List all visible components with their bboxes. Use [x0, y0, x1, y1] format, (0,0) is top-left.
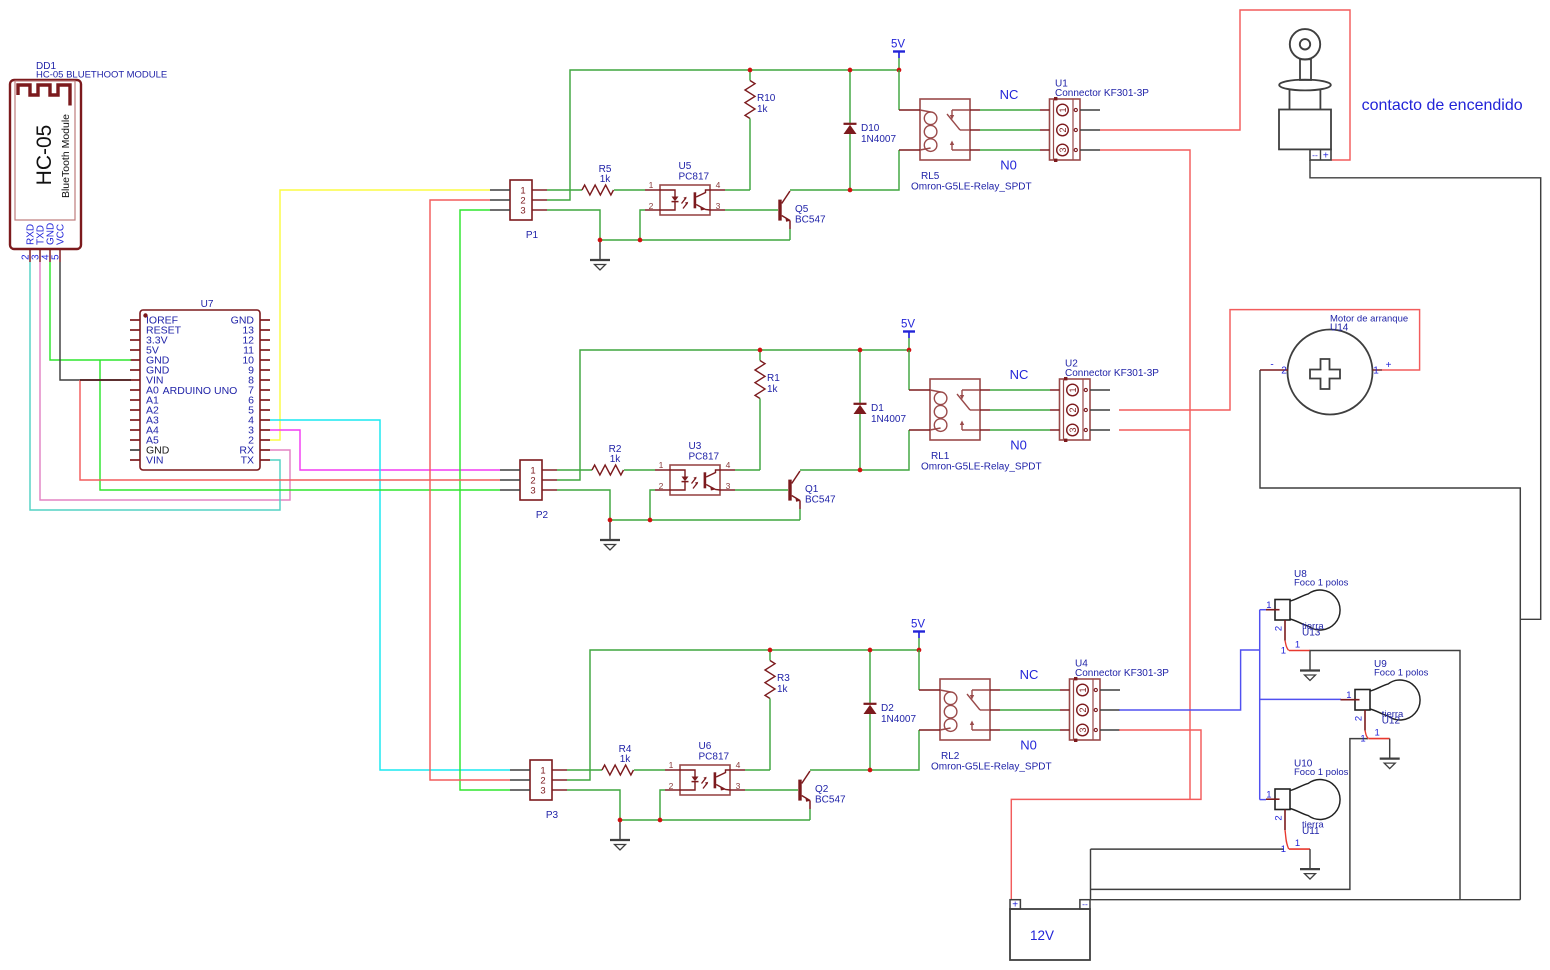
wire Q2 collector rail	[810, 730, 919, 770]
wire RL2 NC to U4.1	[1000, 689, 1060, 691]
svg-text:3: 3	[1058, 147, 1068, 152]
wire R3 to U6.4	[769, 699, 771, 771]
svg-text:--: --	[1082, 899, 1088, 909]
svg-text:PC817: PC817	[689, 452, 720, 463]
svg-text:1: 1	[1346, 690, 1351, 701]
wire U3.3 to Q1 base	[735, 489, 788, 491]
U6 LED	[680, 770, 695, 777]
svg-text:1k: 1k	[620, 754, 632, 765]
connector U1 body	[1050, 99, 1081, 160]
U6 phototransistor	[714, 772, 717, 788]
DD1 pin stubs	[29, 249, 31, 262]
svg-text:Foco 1 polos: Foco 1 polos	[1374, 668, 1429, 679]
svg-text:Connector KF301-3P: Connector KF301-3P	[1055, 88, 1149, 99]
svg-text:1k: 1k	[777, 684, 789, 695]
svg-text:RL5: RL5	[921, 171, 940, 182]
svg-text:HC-05: HC-05	[33, 125, 56, 186]
svg-text:3: 3	[736, 781, 741, 791]
wire U5.4 to R10	[725, 189, 750, 191]
wire P1.1 to R5	[547, 189, 582, 191]
svg-text:3: 3	[726, 481, 731, 491]
U13 pin wire	[1289, 650, 1310, 652]
svg-text:12V: 12V	[1030, 928, 1054, 943]
wire P2.2 to 5V rail	[557, 350, 909, 480]
wire green P1 pin3 to P3 pin3	[460, 210, 510, 790]
RL1 pin stubs	[909, 389, 930, 391]
svg-text:U12: U12	[1382, 716, 1401, 727]
svg-text:Omron-G5LE-Relay_SPDT: Omron-G5LE-Relay_SPDT	[911, 182, 1032, 193]
wire P2.1 to R2	[557, 469, 592, 471]
diode D10	[844, 123, 857, 125]
wire rail to R3	[769, 650, 771, 661]
bluetooth module DD1 HC-05 body	[10, 80, 81, 249]
tierra U13 ground	[1309, 651, 1311, 670]
wire gray minus rail to U11 ground	[1091, 848, 1284, 850]
svg-text:D2: D2	[881, 703, 894, 714]
wire R2 to U3.1	[624, 469, 655, 471]
ignition key terminal tab	[1310, 149, 1331, 160]
wire P3.3 to ground	[567, 790, 620, 820]
U4 left pin stubs	[1060, 689, 1070, 691]
svg-text:1: 1	[1068, 387, 1078, 392]
svg-text:U3: U3	[689, 441, 702, 452]
svg-text:Q5: Q5	[795, 204, 809, 215]
wire U6.3 to Q2 base	[745, 789, 798, 791]
svg-text:2: 2	[649, 201, 654, 211]
wire U9 pin2 to U12	[1365, 731, 1368, 739]
lamp U8 glass	[1290, 590, 1340, 630]
wire P2.3 to ground	[557, 490, 610, 520]
wire R5 to U5.1	[614, 189, 645, 191]
svg-text:+: +	[1323, 151, 1329, 162]
svg-text:3: 3	[520, 206, 525, 217]
wire rail to R1	[759, 350, 761, 361]
svg-text:5V: 5V	[891, 39, 905, 51]
svg-text:VIN: VIN	[146, 455, 164, 467]
battery 12V body	[1010, 909, 1090, 960]
svg-text:1: 1	[1281, 646, 1286, 657]
junction rail-R10	[748, 68, 753, 73]
U6 light arrows	[702, 778, 707, 784]
U5 LED	[660, 190, 675, 197]
RL5 coil	[920, 110, 931, 112]
wire yellow U7 pin2 to P1 pin1	[270, 190, 490, 440]
connector P2	[520, 460, 542, 500]
U7 left pin stubs	[130, 319, 140, 321]
relay RL2 body	[940, 679, 990, 740]
svg-text:1N4007: 1N4007	[871, 414, 906, 425]
svg-text:HC-05 BLUETHOOT MODULE: HC-05 BLUETHOOT MODULE	[36, 70, 167, 81]
svg-text:+: +	[1386, 360, 1392, 371]
lamp U10 base	[1275, 789, 1290, 810]
motor cross	[1310, 359, 1340, 389]
wire U3.2 to bottom rail	[650, 490, 655, 520]
junction ground rail	[598, 238, 603, 243]
svg-text:4: 4	[726, 460, 731, 470]
svg-text:BC547: BC547	[815, 795, 846, 806]
svg-text:VCC: VCC	[56, 224, 67, 245]
P2 left pin stubs	[500, 469, 520, 471]
svg-text:1: 1	[1375, 728, 1380, 739]
battery terminals	[1010, 900, 1020, 909]
wire bottom rail	[610, 519, 800, 521]
ignition key stem	[1300, 59, 1311, 80]
svg-text:N0: N0	[1010, 438, 1027, 453]
wire gray bottom rail battery minus	[1090, 899, 1520, 901]
ground 1	[599, 240, 601, 259]
resistor R4	[602, 765, 634, 775]
wire U10 pin2 to U11	[1285, 830, 1289, 849]
RL5 contacts	[952, 109, 970, 111]
diode D1	[854, 403, 867, 405]
wire RL5 COM to U1.2	[980, 129, 1040, 131]
lamp U10 pin1 stub	[1266, 798, 1280, 800]
wire U5.3 to Q5 base	[725, 209, 778, 211]
wire rail to D1	[859, 350, 861, 403]
wire D1 to collector rail	[859, 414, 861, 470]
diode D2	[864, 703, 877, 705]
U11 pin wire	[1289, 848, 1310, 850]
U1 circled pin 3	[1057, 144, 1069, 156]
svg-text:1k: 1k	[757, 104, 769, 115]
svg-text:Omron-G5LE-Relay_SPDT: Omron-G5LE-Relay_SPDT	[921, 462, 1042, 473]
lamp U9 glass	[1370, 680, 1420, 720]
wire P3.1 to R4	[567, 769, 602, 771]
optocoupler U5 body	[660, 185, 710, 215]
wire rail to R10	[749, 70, 751, 81]
svg-text:1: 1	[1058, 107, 1068, 112]
resistor R10	[745, 81, 755, 119]
svg-text:3: 3	[1068, 427, 1078, 432]
wire red P1 pin2 to P3 pin2	[430, 200, 510, 780]
wire R10 to U5.4	[749, 119, 751, 191]
tierra U11 ground	[1309, 849, 1311, 868]
wire RL5 NO to U1.3	[980, 149, 1040, 151]
wire gray motor - to chassis	[1260, 370, 1520, 900]
U5 phototransistor	[694, 192, 697, 208]
svg-text:1: 1	[1373, 366, 1379, 377]
wire RL2 NO to U4.3	[1000, 729, 1060, 731]
wire blue U4.2 to lamps	[1119, 650, 1260, 710]
U1 circled pin 2	[1057, 124, 1069, 136]
junction rail-5V	[917, 648, 922, 653]
svg-text:BC547: BC547	[795, 215, 826, 226]
svg-text:R10: R10	[757, 93, 776, 104]
wire RL2 COM to U4.2	[1000, 709, 1060, 711]
wire red-gray overlap at VIN	[80, 379, 131, 381]
wire Q1 emitter to rail	[799, 509, 801, 520]
wire gray U13 ground rail	[1309, 651, 1460, 900]
transistor Q5	[778, 200, 781, 221]
junction rail-R3	[768, 648, 773, 653]
wire gray battery minus riser	[1090, 849, 1092, 900]
connector P3	[530, 760, 552, 800]
svg-text:3: 3	[540, 786, 545, 797]
wire blue to U10.1	[1260, 799, 1266, 801]
wire R4 to U6.1	[634, 769, 665, 771]
optocoupler U3 body	[670, 465, 720, 495]
wire green GND branch to P2 pin3	[100, 360, 500, 490]
wire 5V down to relay coil	[898, 70, 900, 110]
svg-text:2: 2	[1078, 707, 1088, 712]
motor U14 body	[1288, 330, 1373, 415]
svg-text:3: 3	[1078, 727, 1088, 732]
lamp U9 pin2 stub	[1364, 710, 1366, 731]
svg-text:NC: NC	[1020, 667, 1039, 682]
junction ground rail	[618, 818, 623, 823]
U4 circled pin 3	[1077, 724, 1089, 736]
svg-text:ARDUINO UNO: ARDUINO UNO	[163, 385, 238, 397]
U5 light arrows	[682, 198, 687, 204]
wire R1 to U3.4	[759, 399, 761, 471]
P3 left pin stubs	[510, 769, 530, 771]
wire 5V to rail	[898, 58, 900, 70]
RL2 contacts	[972, 689, 990, 691]
svg-text:-: -	[1270, 360, 1273, 371]
wire red U7 VIN to P2 pin2	[80, 380, 500, 480]
wire magenta U7 pin3 to P2 pin1	[270, 430, 500, 470]
svg-text:5V: 5V	[901, 319, 915, 331]
U2 circled pin 2	[1067, 404, 1079, 416]
motor pin stubs	[1260, 369, 1288, 371]
RL2 coil	[940, 690, 951, 692]
svg-text:2: 2	[1281, 366, 1287, 377]
svg-text:D1: D1	[871, 403, 884, 414]
junction rail-5V	[907, 348, 912, 353]
svg-text:Q1: Q1	[805, 484, 819, 495]
tierra U12 ground	[1389, 739, 1391, 758]
svg-text:P3: P3	[546, 810, 559, 821]
svg-text:N0: N0	[1000, 158, 1017, 173]
wire gray HC-05 VCC to U7 VIN	[60, 262, 131, 380]
svg-text:--: --	[1312, 150, 1318, 160]
svg-text:2: 2	[659, 481, 664, 491]
svg-text:2: 2	[1274, 626, 1285, 631]
wire turquoise U7 TX to HC-05 RXD	[30, 262, 280, 510]
wire U3.4 to R1	[735, 469, 760, 471]
P2 right pin stubs	[542, 469, 557, 471]
svg-text:U6: U6	[699, 741, 712, 752]
wire 5V down to relay coil	[908, 350, 910, 390]
svg-text:U11: U11	[1302, 826, 1320, 837]
wire RL1 NC to U2.1	[990, 389, 1050, 391]
svg-text:Connector KF301-3P: Connector KF301-3P	[1075, 668, 1169, 679]
svg-text:3: 3	[530, 486, 535, 497]
U3 pin stubs	[655, 469, 670, 471]
RL5 pin stubs	[899, 109, 920, 111]
wire 5V down to relay coil	[918, 650, 920, 690]
svg-text:Connector KF301-3P: Connector KF301-3P	[1065, 368, 1159, 379]
svg-text:1: 1	[1360, 734, 1365, 745]
P3 right pin stubs	[552, 769, 567, 771]
wire Q2 emitter to rail	[809, 809, 811, 820]
svg-text:1: 1	[1266, 790, 1271, 801]
svg-text:R3: R3	[777, 673, 790, 684]
svg-text:1k: 1k	[767, 384, 779, 395]
wire RL5 NC to U1.1	[980, 109, 1040, 111]
wire 5V to rail	[918, 638, 920, 650]
lamp U8 pin2 stub	[1284, 620, 1286, 641]
wire Q5 emitter to rail	[789, 229, 791, 240]
wire blue to U8.1	[1260, 609, 1266, 611]
RL1 contacts	[962, 389, 980, 391]
svg-text:Omron-G5LE-Relay_SPDT: Omron-G5LE-Relay_SPDT	[931, 762, 1052, 773]
svg-text:PC817: PC817	[679, 172, 710, 183]
wire P1.2 to 5V rail	[547, 70, 899, 200]
resistor R3	[765, 661, 775, 699]
resistor R2	[592, 465, 624, 475]
svg-text:PC817: PC817	[699, 752, 730, 763]
svg-text:+: +	[1012, 900, 1018, 911]
wire U6.4 to R3	[745, 769, 770, 771]
svg-text:N0: N0	[1020, 738, 1037, 753]
svg-text:BC547: BC547	[805, 495, 836, 506]
U12 pin wire	[1369, 738, 1390, 740]
svg-text:U14: U14	[1330, 323, 1349, 334]
svg-text:1: 1	[669, 760, 674, 770]
svg-text:U13: U13	[1302, 628, 1321, 639]
resistor R5	[582, 185, 614, 195]
U7 first pin dot	[143, 313, 147, 317]
svg-text:2: 2	[1354, 716, 1365, 721]
wire rail to D10	[849, 70, 851, 123]
connector U2 body	[1060, 379, 1091, 440]
svg-text:P2: P2	[536, 510, 549, 521]
svg-text:Q2: Q2	[815, 784, 829, 795]
ignition key body	[1279, 110, 1331, 150]
junction rail-D2	[868, 648, 873, 653]
svg-text:NC: NC	[1000, 87, 1019, 102]
svg-text:1k: 1k	[600, 174, 612, 185]
svg-text:TX: TX	[241, 455, 254, 467]
transistor Q2	[798, 780, 801, 801]
U4 circled pin 2	[1077, 704, 1089, 716]
junction rail-D1	[858, 348, 863, 353]
wire cyan U7 pin4 to P3 pin1	[270, 420, 510, 770]
resistor R1	[755, 361, 765, 399]
wire U5.2 to bottom rail	[640, 210, 645, 240]
optocoupler U6 body	[680, 765, 730, 795]
wire bottom rail	[600, 239, 790, 241]
connector P1	[510, 180, 532, 220]
junction rail-R1	[758, 348, 763, 353]
svg-text:NC: NC	[1010, 367, 1029, 382]
P1 right pin stubs	[532, 189, 547, 191]
svg-text:1: 1	[1281, 844, 1286, 855]
svg-text:2: 2	[1068, 407, 1078, 412]
svg-text:1: 1	[1078, 687, 1088, 692]
junction ground rail	[608, 518, 613, 523]
relay RL1 body	[930, 379, 980, 440]
svg-text:1: 1	[659, 460, 664, 470]
connector U4 body	[1070, 679, 1101, 740]
wire red U2.3 to bus	[1119, 429, 1190, 431]
wire P1.3 to ground	[547, 210, 600, 240]
wire blue lamp bus	[1259, 610, 1261, 800]
U3 phototransistor	[704, 472, 707, 488]
svg-text:RL2: RL2	[941, 751, 960, 762]
U6 pin stubs	[665, 769, 680, 771]
junction rail-D10	[848, 68, 853, 73]
U2 circled pin 1	[1067, 384, 1079, 396]
ignition key guard ellipse	[1279, 80, 1331, 91]
arduino U7 body	[140, 310, 260, 470]
svg-text:1N4007: 1N4007	[861, 134, 896, 145]
svg-text:BlueTooth Module: BlueTooth Module	[60, 114, 72, 198]
svg-text:R1: R1	[767, 373, 780, 384]
wire RL1 COM to U2.2	[990, 409, 1050, 411]
wire blue to U9.1	[1260, 698, 1341, 700]
wire D2 to collector rail	[869, 714, 871, 770]
U7 right pin stubs	[260, 319, 270, 321]
svg-text:Foco 1 polos: Foco 1 polos	[1294, 767, 1349, 778]
wire U6.2 to bottom rail	[660, 790, 665, 820]
U5 pin stubs	[645, 189, 660, 191]
wire red U2.2 to motor +	[1119, 310, 1420, 410]
U1 right pin stubs	[1080, 109, 1100, 111]
svg-text:contacto de encendido: contacto de encendido	[1362, 97, 1523, 114]
RL2 pin stubs	[919, 689, 940, 691]
wire gray minus rail to U12 ground	[1091, 739, 1369, 890]
wire red U1.3 to battery bus	[1100, 150, 1190, 799]
U2 circled pin 3	[1067, 424, 1079, 436]
wire red U4.3 to battery +	[1011, 730, 1201, 900]
junction rail-5V	[897, 68, 902, 73]
wire P3.2 to 5V rail	[567, 650, 919, 780]
transistor Q1	[788, 480, 791, 501]
svg-text:2: 2	[1274, 815, 1285, 820]
svg-text:1: 1	[1266, 600, 1271, 611]
RL1 coil	[930, 390, 941, 392]
svg-text:1: 1	[649, 180, 654, 190]
wire 5V to rail	[908, 338, 910, 350]
lamp U10 pin2 stub	[1284, 810, 1286, 831]
svg-text:Foco 1 polos: Foco 1 polos	[1294, 578, 1349, 589]
svg-text:RL1: RL1	[931, 451, 950, 462]
svg-text:2: 2	[1058, 127, 1068, 132]
U1 left pin stubs	[1040, 109, 1050, 111]
HC-05 antenna meander	[18, 85, 70, 106]
U1 circled pin 1	[1057, 104, 1069, 116]
svg-text:U5: U5	[679, 161, 692, 172]
wire bottom rail	[620, 819, 810, 821]
lamp U8 base	[1275, 600, 1290, 621]
wire red U1.2 to ignition switch	[1100, 10, 1350, 160]
lamp U10 glass	[1290, 780, 1340, 820]
ignition key neck	[1289, 90, 1291, 110]
wire Q1 collector rail	[800, 430, 909, 470]
lamp U9 pin1 stub	[1341, 699, 1360, 701]
wire green HC-05 GND to U7 GND	[50, 262, 131, 360]
svg-text:4: 4	[736, 760, 741, 770]
svg-text:5V: 5V	[911, 619, 925, 631]
relay RL5 body	[920, 99, 970, 160]
U4 circled pin 1	[1077, 684, 1089, 696]
lamp U9 base	[1355, 690, 1370, 711]
wire gray ignition to chassis	[1310, 160, 1541, 619]
wire pink U7 RX to HC-05 TXD	[40, 262, 290, 500]
P1 left pin stubs	[490, 189, 510, 191]
svg-text:3: 3	[716, 201, 721, 211]
U2 left pin stubs	[1050, 389, 1060, 391]
svg-text:2: 2	[669, 781, 674, 791]
wire U8 pin2 to U13	[1285, 641, 1289, 651]
svg-text:4: 4	[716, 180, 721, 190]
svg-text:U7: U7	[201, 299, 214, 310]
U3 light arrows	[692, 478, 697, 484]
ground 2	[609, 520, 611, 539]
svg-text:P1: P1	[526, 230, 539, 241]
